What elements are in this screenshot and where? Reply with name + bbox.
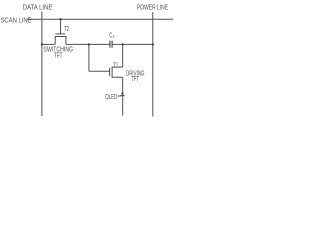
- svg-text:DATA LINE: DATA LINE: [23, 2, 53, 11]
- wire: T2 drain to storage node: [66, 43, 110, 45]
- svg-text:POWER LINE: POWER LINE: [137, 3, 168, 12]
- wire: data line to T2 source: [42, 43, 55, 45]
- wire: T1 source down to OLED anode: [122, 77, 124, 115]
- svg-text:TFT: TFT: [54, 50, 63, 59]
- diode OLED cathode bar: [120, 95, 124, 97]
- junction dot: data line / T2 source: [41, 43, 43, 45]
- svg-text:TFT: TFT: [131, 74, 139, 83]
- wire: capacitor right plate to power line: [113, 43, 153, 45]
- transistor T2 channel hat: [55, 37, 66, 45]
- junction dot: T1 drain / power wire: [122, 43, 124, 45]
- svg-text:OLED: OLED: [105, 92, 117, 101]
- wire: SCAN LINE horizontal bus: [27, 18, 174, 20]
- transistor T1 gate bar: [109, 68, 111, 76]
- svg-text:T1: T1: [113, 60, 118, 69]
- svg-text:SCAN LINE: SCAN LINE: [1, 15, 32, 24]
- wire: POWER LINE vertical bus: [152, 12, 154, 117]
- transistor T1 channel hat: [112, 67, 123, 77]
- wire: OLED label pointer dash: [118, 95, 122, 97]
- junction dot: power line / capacitor wire: [152, 43, 154, 45]
- wire: T1 drain up to power rail: [122, 44, 124, 67]
- wire: T2 gate lead from scan line: [60, 19, 62, 34]
- capacitor C_s right plate: [111, 41, 113, 48]
- node A junction dot: storage node: [88, 43, 90, 45]
- transistor Q T2 gate bar: [55, 33, 65, 35]
- wire: T1 gate lead horizontal: [89, 70, 110, 72]
- capacitor C_s left plate: [109, 41, 111, 48]
- junction dot: scan line / T2 gate: [59, 18, 61, 20]
- wire: storage node vertical drop: [88, 44, 90, 71]
- diode OLED triangle (anode, pointing down): [121, 93, 124, 96]
- svg-text:T2: T2: [64, 24, 69, 33]
- wire: DATA LINE vertical bus: [41, 12, 43, 117]
